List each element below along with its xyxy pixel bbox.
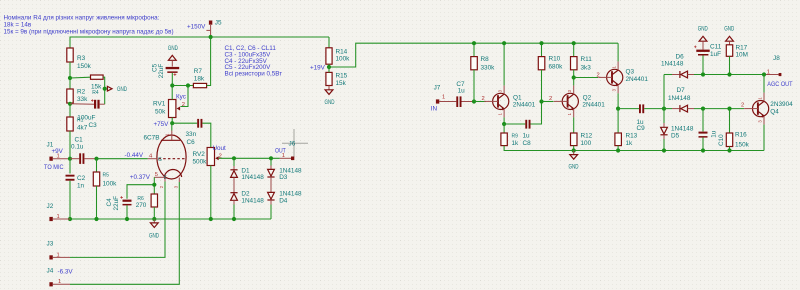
capacitor C5	[152, 63, 180, 85]
svg-text:C3: C3	[89, 122, 98, 129]
svg-text:33n: 33n	[186, 131, 197, 138]
svg-text:+9V: +9V	[52, 148, 64, 155]
svg-text:TO MIC: TO MIC	[44, 164, 64, 171]
svg-text:-6.3V: -6.3V	[58, 269, 74, 276]
svg-text:D5: D5	[671, 132, 680, 139]
svg-text:C8: C8	[523, 140, 532, 147]
wire D7 to Q4 base	[694, 108, 744, 110]
svg-text:R4: R4	[92, 90, 99, 96]
svg-text:1u: 1u	[523, 132, 531, 139]
svg-text:4k7: 4k7	[77, 125, 88, 132]
wire node to R7	[172, 85, 193, 87]
svg-text:0.1u: 0.1u	[71, 144, 84, 151]
resistor R13	[615, 109, 638, 151]
svg-text:10M: 10M	[736, 51, 748, 58]
svg-text:D6: D6	[676, 53, 685, 60]
diode D2	[230, 191, 264, 219]
junction +75V	[170, 121, 174, 125]
junction rail R5	[94, 217, 98, 221]
tube grid	[148, 154, 185, 164]
svg-text:1uF: 1uF	[710, 51, 721, 58]
transistor Q1	[482, 85, 536, 117]
svg-text:R9: R9	[512, 133, 519, 139]
junction +19V	[327, 65, 331, 69]
wire Uout	[219, 157, 280, 159]
wire D6 to J8	[694, 74, 764, 76]
junction node A	[662, 107, 666, 111]
svg-text:Q1: Q1	[513, 94, 522, 101]
junction rail RV2	[209, 217, 213, 221]
tube anode plate	[161, 131, 180, 141]
resistor R4	[91, 75, 104, 96]
connector J4	[47, 267, 71, 286]
connector J3	[47, 241, 71, 260]
svg-text:R1: R1	[77, 118, 84, 124]
svg-text:GND: GND	[569, 163, 579, 170]
junction C11	[701, 72, 705, 76]
svg-text:Q2: Q2	[583, 94, 592, 101]
svg-text:C9: C9	[637, 125, 646, 132]
wire D3-D4	[270, 177, 272, 192]
svg-text:2N4401: 2N4401	[582, 102, 605, 109]
svg-text:1: 1	[282, 153, 285, 159]
svg-text:150k: 150k	[77, 63, 92, 70]
svg-text:R5: R5	[103, 172, 110, 178]
resistor R10	[538, 43, 563, 101]
svg-text:GND: GND	[724, 25, 734, 32]
svg-text:18k = 14в: 18k = 14в	[4, 21, 32, 28]
svg-text:2: 2	[182, 102, 185, 108]
diode D1	[230, 158, 264, 181]
svg-text:R13: R13	[626, 132, 638, 139]
junction C5/R7/RV1	[170, 83, 174, 87]
svg-text:C6: C6	[187, 139, 196, 146]
svg-text:15k: 15k	[336, 80, 347, 87]
svg-text:1u: 1u	[458, 87, 466, 94]
svg-text:1: 1	[57, 214, 60, 220]
wire R7 right to +150V	[207, 37, 211, 86]
svg-text:22uF: 22uF	[113, 196, 120, 211]
svg-text:GND: GND	[698, 25, 708, 32]
tube cathode	[154, 170, 181, 182]
svg-text:RV2: RV2	[193, 151, 206, 158]
svg-text:2N3904: 2N3904	[770, 101, 793, 108]
wire node A link	[663, 75, 665, 109]
junction cathode	[152, 183, 156, 187]
connector J7	[434, 85, 457, 104]
ground flag above R17	[724, 25, 734, 45]
capacitor C10	[699, 109, 726, 151]
junction R2 top	[68, 76, 72, 80]
svg-text:18k: 18k	[194, 75, 205, 82]
tube heater pins	[159, 177, 179, 189]
svg-text:Q3: Q3	[626, 69, 635, 76]
svg-text:J8: J8	[773, 55, 780, 62]
svg-text:GND: GND	[149, 232, 159, 239]
svg-text:1N4148: 1N4148	[241, 174, 264, 181]
connector J2	[47, 203, 71, 221]
svg-text:+75V: +75V	[154, 121, 170, 128]
svg-text:R8: R8	[481, 56, 490, 63]
junction R17	[727, 72, 731, 76]
svg-text:Кус: Кус	[176, 93, 186, 100]
wire Q3 emitter	[617, 93, 619, 108]
svg-text:1: 1	[767, 69, 770, 75]
junction rail R16	[727, 148, 731, 152]
svg-text:150k: 150k	[735, 141, 750, 148]
wire +150V rail top	[70, 37, 329, 48]
junction rail D5	[662, 148, 666, 152]
svg-text:5: 5	[155, 172, 158, 178]
connector J5	[206, 19, 222, 36]
wire to R4	[70, 76, 91, 79]
wire grid node	[97, 158, 148, 160]
wire D1-D2	[233, 177, 235, 192]
ground right-arrow	[107, 86, 127, 93]
svg-text:R3: R3	[77, 55, 86, 62]
capacitor C2	[66, 159, 86, 219]
wire ground rail	[70, 218, 271, 220]
svg-text:Номінали R4 для різних напруг: Номінали R4 для різних напруг живлення м…	[4, 13, 160, 21]
resistor R2	[67, 89, 88, 104]
wire heater1 to J3	[70, 182, 165, 258]
note text annotation	[4, 13, 174, 35]
connector J1	[47, 141, 71, 160]
note text capacitors	[225, 45, 283, 78]
wire cathode node	[153, 177, 155, 194]
resistor R17	[726, 45, 748, 75]
wire C3 right	[100, 103, 105, 105]
svg-text:50k: 50k	[155, 108, 166, 115]
svg-text:1k: 1k	[512, 140, 520, 147]
connector J6 ghost	[280, 129, 308, 160]
ground below R12	[569, 151, 579, 171]
junction C10 top	[701, 107, 705, 111]
svg-text:G: G	[158, 157, 162, 163]
diode D6	[661, 53, 694, 78]
wire R4 to C3	[103, 77, 105, 104]
svg-text:R16: R16	[735, 131, 747, 138]
svg-text:D3: D3	[279, 174, 288, 181]
wire D6 row	[664, 74, 672, 76]
svg-text:100k: 100k	[103, 180, 118, 187]
svg-text:GND: GND	[325, 99, 335, 106]
resistor R3	[67, 48, 92, 70]
svg-text:500k: 500k	[193, 159, 208, 166]
tube V1 6C7B	[144, 135, 187, 179]
svg-text:R12: R12	[581, 132, 593, 139]
svg-text:1: 1	[57, 252, 60, 258]
resistor R1	[67, 117, 88, 132]
resistor R8	[471, 43, 495, 101]
wire RV1 wiper	[180, 86, 188, 107]
resistor R12	[571, 117, 593, 150]
wire Q4 collector	[763, 75, 765, 93]
svg-text:+19V: +19V	[310, 64, 326, 71]
wire Q3 collector	[617, 43, 619, 61]
svg-text:+0.37V: +0.37V	[130, 174, 151, 181]
junction R6 bottom	[152, 217, 156, 221]
svg-text:Всі резистори 0,5Вт: Всі резистори 0,5Вт	[225, 70, 283, 78]
resistor R14	[326, 37, 350, 67]
wire Q1 emitter	[503, 117, 505, 124]
wire base Q1	[474, 101, 486, 103]
svg-text:R10: R10	[549, 55, 561, 62]
resistor R16	[726, 109, 749, 151]
wire +19V to top rail	[329, 43, 618, 67]
resistor R11	[571, 43, 593, 85]
svg-text:6C7B: 6C7B	[144, 135, 160, 142]
svg-text:J6: J6	[289, 140, 296, 147]
svg-text:Uout: Uout	[213, 145, 227, 152]
svg-text:100k: 100k	[336, 55, 351, 62]
wire C6 to RV2	[202, 123, 210, 147]
ground flag above C11	[698, 25, 708, 49]
resistor R15	[326, 67, 348, 87]
svg-text:C11: C11	[710, 44, 722, 51]
svg-text:-0.44V: -0.44V	[125, 152, 144, 159]
svg-text:R7: R7	[194, 68, 203, 75]
junction Q2 collector	[572, 75, 576, 79]
svg-text:J3: J3	[47, 241, 54, 248]
svg-text:+150V: +150V	[187, 24, 206, 31]
svg-text:J4: J4	[47, 267, 54, 274]
svg-text:D7: D7	[677, 87, 686, 94]
connector J8	[764, 55, 781, 76]
capacitor C6	[186, 119, 203, 146]
resistor R7	[193, 68, 206, 88]
svg-text:1k: 1k	[626, 140, 634, 147]
junction rail Q1	[502, 41, 506, 45]
wire base Q3	[574, 77, 598, 79]
junction rail C10	[701, 148, 705, 152]
svg-text:1: 1	[58, 279, 61, 285]
wire C3 left	[70, 103, 94, 105]
wire R1 to J1 node	[69, 131, 71, 159]
resistor R6	[136, 194, 158, 219]
svg-text:3k3: 3k3	[581, 65, 592, 72]
svg-text:1N4148: 1N4148	[241, 197, 264, 204]
junction Q3 emitter	[616, 107, 620, 111]
svg-text:C1: C1	[75, 136, 84, 143]
junction rail C4	[125, 217, 129, 221]
junction C1 right	[94, 157, 98, 161]
svg-text:J5: J5	[215, 19, 222, 26]
svg-text:J2: J2	[47, 203, 54, 210]
transistor Q3	[597, 61, 649, 93]
svg-text:1u: 1u	[711, 130, 718, 138]
svg-text:R15: R15	[336, 73, 348, 80]
junction rail C2	[68, 217, 72, 221]
junction J8/Q4 collector	[762, 72, 766, 76]
capacitor C1	[70, 136, 97, 164]
wire D7 feed	[664, 108, 672, 110]
svg-text:1n: 1n	[77, 183, 85, 190]
junction rail R13	[616, 148, 620, 152]
capacitor C9	[618, 104, 664, 132]
svg-text:2: 2	[741, 103, 744, 109]
svg-text:33k: 33k	[77, 96, 88, 103]
wire +75V to C6	[172, 122, 197, 124]
svg-text:GND: GND	[117, 86, 127, 93]
wire heater2 to J4	[70, 182, 179, 284]
wire base Q2	[542, 101, 554, 103]
diode D7	[668, 87, 694, 112]
svg-text:1N4148: 1N4148	[668, 95, 691, 102]
junction D3 top	[269, 156, 273, 160]
svg-text:J7: J7	[434, 85, 441, 92]
junction wiper tap	[186, 83, 190, 87]
svg-text:270: 270	[136, 202, 147, 209]
capacitor C7	[456, 81, 474, 107]
svg-text:680k: 680k	[549, 64, 564, 71]
svg-text:R2: R2	[77, 89, 86, 96]
junction Q2 base	[539, 99, 543, 103]
potentiometer RV1	[153, 86, 185, 124]
svg-text:1N4148: 1N4148	[661, 61, 684, 68]
wire anode feed	[171, 123, 173, 130]
svg-text:2: 2	[482, 96, 485, 102]
transistor Q2	[549, 85, 605, 117]
resistor R5	[93, 159, 117, 219]
resistor R9	[501, 124, 764, 151]
junction J5	[209, 35, 213, 39]
svg-text:2N4401: 2N4401	[626, 76, 649, 83]
junction R2 bottom	[68, 102, 72, 106]
capacitor C8	[504, 102, 541, 148]
diode D5	[660, 109, 693, 151]
svg-text:2N4401: 2N4401	[513, 102, 536, 109]
svg-text:GND: GND	[168, 45, 178, 52]
diode D4	[267, 191, 302, 219]
svg-text:22uF: 22uF	[158, 64, 165, 79]
svg-text:RV1: RV1	[153, 101, 166, 108]
svg-text:330k: 330k	[481, 65, 496, 72]
svg-text:2: 2	[549, 96, 552, 102]
svg-text:C4: C4	[106, 198, 113, 207]
svg-text:2: 2	[597, 72, 600, 78]
svg-text:C2: C2	[77, 175, 86, 182]
junction rail D2	[232, 217, 236, 221]
ground flag above C5	[168, 45, 178, 67]
svg-text:IN: IN	[431, 105, 438, 112]
capacitor C3	[77, 99, 99, 129]
transistor Q4	[741, 93, 793, 125]
svg-text:100: 100	[581, 140, 592, 147]
svg-text:15к = 9в (при підключенні мікр: 15к = 9в (при підключенні мікрофону напр…	[4, 28, 174, 36]
ground below R15	[325, 86, 335, 106]
wire R3 to R1	[69, 62, 71, 117]
junction rail R8	[472, 41, 476, 45]
svg-text:C10: C10	[718, 134, 725, 146]
junction R16 top	[727, 107, 731, 111]
wire Q4 emitter	[763, 125, 765, 151]
junction R4/C3/GND	[103, 87, 107, 91]
potentiometer RV2	[193, 148, 222, 220]
wire +0.37V to C4	[127, 185, 154, 199]
svg-text:Q4: Q4	[770, 109, 779, 116]
capacitor C11	[694, 44, 722, 75]
capacitor C4	[106, 196, 132, 219]
ground below R6	[149, 219, 159, 239]
junction rail R11	[572, 41, 576, 45]
svg-text:R11: R11	[581, 56, 593, 63]
junction rail R10	[539, 41, 543, 45]
svg-text:1: 1	[442, 95, 445, 101]
junction Q1 emitter	[502, 122, 506, 126]
junction Q1 base	[472, 99, 476, 103]
svg-text:D4: D4	[279, 197, 288, 204]
junction D1 top	[232, 156, 236, 160]
svg-text:AGC OUT: AGC OUT	[767, 81, 792, 88]
wire Q1 collector	[503, 43, 505, 85]
diode D3	[267, 158, 302, 181]
junction rail R12	[572, 148, 576, 152]
junction J1 node	[68, 157, 72, 161]
